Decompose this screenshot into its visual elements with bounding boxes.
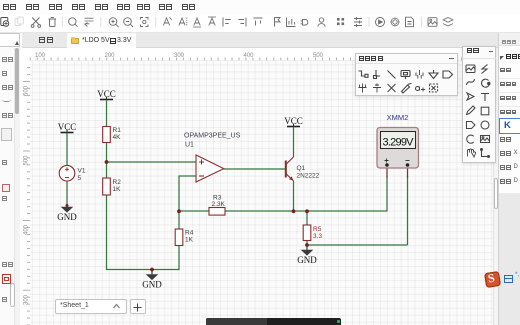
op-amp U1 OPAMP3PEE_US	[184, 133, 241, 183]
svg-text:1K: 1K	[113, 186, 122, 193]
svg-text:R5: R5	[313, 226, 322, 233]
wire op-amp - input loop	[179, 175, 197, 177]
svg-text:4K: 4K	[113, 134, 122, 141]
tab bar	[22, 33, 498, 48]
right properties panel	[498, 33, 520, 325]
svg-text:2N2222: 2N2222	[297, 173, 320, 180]
svg-text:U1: U1	[185, 142, 194, 149]
wire Q1 emitter down	[293, 181, 295, 212]
svg-text:3.299V: 3.299V	[383, 137, 415, 149]
wire Q1 collector to VCC	[293, 127, 295, 158]
video overlay bar	[206, 318, 341, 325]
watermark logo	[483, 270, 500, 287]
wire multimeter + probe down to rail	[386, 176, 388, 212]
svg-text:R4: R4	[185, 230, 194, 237]
wire R5 top	[306, 211, 308, 225]
junction bottom rail / ground	[150, 268, 154, 272]
junction R4/feedback rail	[177, 209, 181, 213]
junction R5 bottom output node	[305, 243, 309, 247]
svg-text:OPAMP3PEE_US: OPAMP3PEE_US	[184, 133, 241, 140]
multimeter XMM2	[377, 113, 419, 168]
wire output rail to multimeter - probe	[307, 244, 408, 246]
wire bottom rail (R2 to R4)	[106, 269, 180, 271]
wire VCC to R1	[106, 100, 108, 127]
svg-text:GND: GND	[297, 255, 317, 265]
wire feedback rail right (R3 to emitter and probe)	[225, 210, 387, 212]
voltage source V1	[59, 165, 86, 182]
svg-text:2.3K: 2.3K	[212, 201, 226, 208]
wire node A to op-amp + input	[107, 161, 197, 163]
menu bar	[0, 0, 520, 15]
floating panel: drawing tools	[462, 46, 497, 164]
resistor R4 1K	[175, 229, 193, 246]
svg-text:GND: GND	[142, 280, 162, 290]
sheet tab	[55, 299, 127, 314]
multimeter probe stubs (red)	[386, 166, 388, 178]
svg-text:V1: V1	[78, 168, 86, 175]
junction R5/rail	[305, 209, 309, 213]
transistor Q1 2N2222	[286, 157, 320, 181]
wire R2 down to bottom rail	[106, 195, 108, 270]
right canvas scrollbar	[493, 48, 499, 325]
svg-text:3.3: 3.3	[313, 233, 322, 240]
wire R5 bottom to output node	[306, 241, 308, 247]
resistor R2 1K	[103, 178, 121, 195]
ground (bottom rail)	[142, 270, 162, 290]
svg-text:Q1: Q1	[297, 165, 306, 172]
power flag VCC (above R1)	[97, 89, 116, 100]
node A junction (R1/R2/op-amp)	[105, 160, 109, 164]
floating panel: electrical tools	[355, 53, 458, 97]
power flag VCC (above Q1 collector)	[284, 116, 303, 127]
toolbar icons	[0, 14, 520, 33]
resistor R1 4K	[103, 127, 121, 143]
svg-text:XMM2: XMM2	[387, 113, 409, 122]
wire R4 top to feedback rail	[178, 211, 180, 229]
resistor R5 3.3	[303, 225, 322, 241]
ground (below V1)	[57, 204, 77, 222]
resistor R3 2.3K	[209, 195, 226, 216]
svg-text:R2: R2	[113, 179, 122, 186]
power flag VCC (above V1)	[58, 122, 77, 133]
wire V1 bottom to GND	[66, 181, 68, 206]
wire feedback rail left (node to R3)	[179, 210, 210, 212]
left component list panel	[0, 33, 20, 325]
svg-text:5: 5	[78, 175, 82, 182]
svg-text:R1: R1	[113, 127, 122, 134]
wire R4 bottom	[178, 246, 180, 271]
svg-text:1K: 1K	[185, 237, 194, 244]
canvas grid	[30, 61, 493, 325]
wire R1 to node A	[106, 143, 108, 179]
wire V1 top to VCC	[66, 133, 68, 166]
junction emitter/rail	[292, 209, 296, 213]
ground (below R5)	[297, 246, 317, 266]
svg-text:GND: GND	[57, 212, 77, 222]
wire op-amp output to Q1 base	[224, 168, 286, 170]
